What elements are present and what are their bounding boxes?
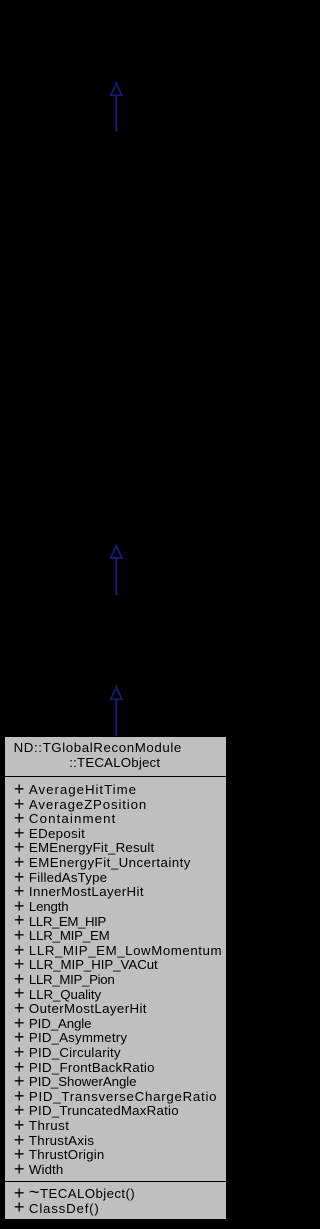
member row + LLR_MIP_EM bbox=[14, 929, 110, 942]
member row + PID_Circularity bbox=[14, 1046, 121, 1059]
header separator bbox=[4, 776, 227, 777]
wire: arrow 3 stem bbox=[115, 700, 117, 737]
class title line 2 bbox=[69, 756, 160, 769]
member row + InnerMostLayerHit bbox=[14, 885, 144, 898]
class box ND::TGlobalReconModule::TECALObject bbox=[4, 736, 227, 1220]
member row + PID_TruncatedMaxRatio bbox=[14, 1104, 179, 1117]
member row + EDeposit bbox=[14, 827, 85, 840]
member row + Thrust bbox=[14, 1119, 69, 1132]
member row + LLR_MIP_EM_LowMomentum bbox=[14, 944, 222, 957]
arrow 1 apex knob bbox=[115, 82, 118, 85]
member row + LLR_EM_HIP bbox=[14, 915, 106, 928]
arrow 2 apex knob bbox=[115, 544, 118, 547]
member row + FilledAsType bbox=[14, 871, 107, 884]
member row + PID_TransverseChargeRatio bbox=[14, 1090, 217, 1103]
member row + Containment bbox=[14, 812, 117, 825]
member row + OuterMostLayerHit bbox=[14, 1002, 147, 1015]
member row + Length bbox=[14, 900, 69, 913]
member row + PID_Asymmetry bbox=[14, 1031, 127, 1044]
member row + ThrustAxis bbox=[14, 1134, 94, 1147]
arrow 2 hollow triangle head bbox=[111, 546, 122, 558]
method row + ~TECALObject() bbox=[14, 1187, 135, 1200]
member row + ThrustOrigin bbox=[14, 1148, 105, 1161]
member row + PID_FrontBackRatio bbox=[14, 1061, 155, 1074]
inheritance edges (midnightblue) bbox=[0, 0, 232, 1229]
member row + EMEnergyFit_Uncertainty bbox=[14, 856, 191, 869]
member row + EMEnergyFit_Result bbox=[14, 841, 155, 854]
methods separator bbox=[4, 1181, 227, 1182]
arrow 3 apex knob bbox=[115, 686, 118, 689]
member row + LLR_Quality bbox=[14, 988, 101, 1001]
wire: arrow 1 stem bbox=[115, 96, 117, 132]
arrow 1 hollow triangle head bbox=[111, 84, 122, 95]
member row + LLR_MIP_HIP_VACut bbox=[14, 958, 158, 971]
member row + PID_Angle bbox=[14, 1017, 91, 1030]
member row + AverageHitTime bbox=[14, 783, 137, 796]
member row + Width bbox=[14, 1163, 63, 1176]
arrow 3 hollow triangle head bbox=[111, 688, 122, 700]
method row + ClassDef() bbox=[14, 1202, 100, 1215]
member row + LLR_MIP_Pion bbox=[14, 973, 115, 986]
member row + PID_ShowerAngle bbox=[14, 1075, 137, 1088]
class title line 1 bbox=[14, 741, 182, 754]
member row + AverageZPosition bbox=[14, 798, 147, 811]
wire: arrow 2 stem bbox=[115, 558, 117, 595]
